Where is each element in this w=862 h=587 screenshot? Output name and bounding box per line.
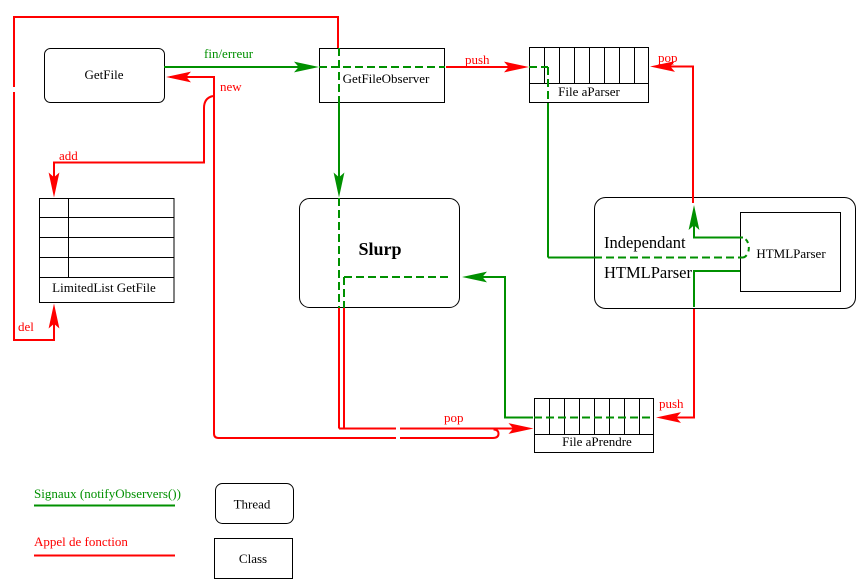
svg-text:Appel de fonction: Appel de fonction: [34, 534, 128, 549]
svg-text:Slurp: Slurp: [358, 239, 401, 259]
svg-text:GetFile: GetFile: [85, 67, 124, 82]
svg-text:HTMLParser: HTMLParser: [756, 246, 826, 261]
svg-text:Independant: Independant: [604, 233, 686, 252]
svg-text:Thread: Thread: [234, 497, 271, 512]
svg-text:new: new: [220, 79, 242, 94]
svg-text:Signaux (notifyObservers()): Signaux (notifyObservers()): [34, 486, 181, 501]
svg-text:GetFileObserver: GetFileObserver: [343, 71, 430, 86]
svg-text:push: push: [465, 52, 490, 67]
svg-text:LimitedList GetFile: LimitedList GetFile: [52, 280, 156, 295]
svg-text:HTMLParser: HTMLParser: [604, 263, 692, 282]
svg-text:Class: Class: [239, 551, 267, 566]
svg-text:add: add: [59, 148, 78, 163]
svg-text:fin/erreur: fin/erreur: [204, 46, 254, 61]
svg-text:pop: pop: [658, 50, 678, 65]
svg-text:File aPrendre: File aPrendre: [562, 434, 632, 449]
svg-text:push: push: [659, 396, 684, 411]
svg-text:File aParser: File aParser: [558, 84, 620, 99]
svg-text:pop: pop: [444, 410, 464, 425]
svg-text:del: del: [18, 319, 34, 334]
